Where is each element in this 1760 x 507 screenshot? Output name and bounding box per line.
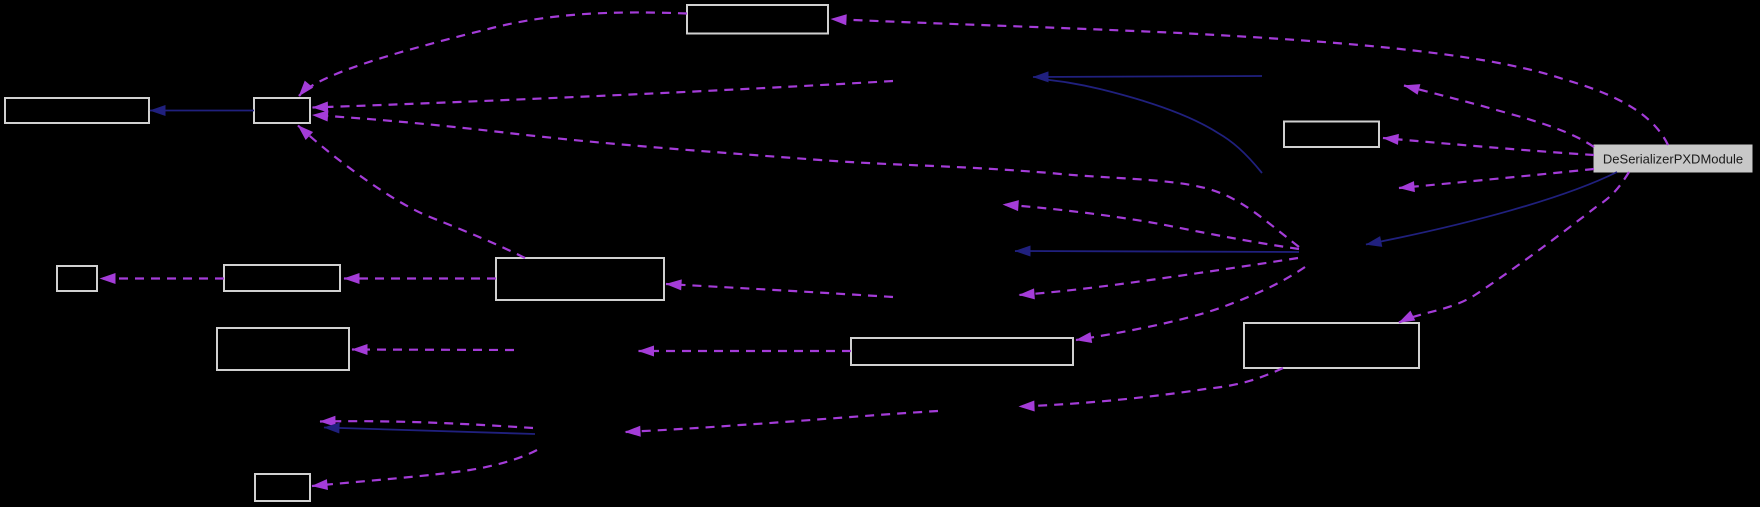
edge E4: B8 top -> B2 bottom — [298, 126, 525, 259]
node B8 — [496, 258, 664, 300]
blue edge BL2: horizontal — [1033, 76, 1262, 77]
node B6 — [57, 266, 97, 291]
node B9 — [217, 328, 349, 370]
blue edge BL3: curve — [1042, 79, 1262, 173]
blue edge BL4: label -> fan — [1366, 172, 1617, 245]
edge L2: fan -> invisible — [1003, 205, 1299, 250]
node B1 — [5, 98, 149, 123]
edge pair purple: invisible -> invisible — [320, 421, 533, 428]
node B4 — [1284, 122, 1379, 148]
node B7 — [224, 265, 340, 291]
edge B10 -> invisible left — [639, 350, 852, 352]
node B12 — [255, 474, 310, 501]
edge Earc1: label top -> B3 right — [831, 19, 1668, 145]
edge Ea: label -> invisible upper — [1404, 86, 1594, 148]
node B10 — [851, 338, 1073, 365]
main node DeSerializerPXDModule — [1594, 145, 1752, 172]
node B3 — [687, 5, 828, 34]
edge Eb: label -> B4 right — [1383, 138, 1594, 155]
edge to B12 — [312, 450, 537, 486]
edge E5: label -> invisible — [1399, 169, 1594, 188]
svg-text:DeSerializerPXDModule: DeSerializerPXDModule — [1603, 152, 1743, 167]
edge B7 -> B6 — [100, 277, 224, 279]
edge L4: fan -> B10 right — [1076, 267, 1305, 340]
node B2 — [254, 98, 310, 123]
edge EL6: invisible -> invisible — [625, 411, 938, 432]
edge E2: invisible -> B2 right upper — [313, 81, 894, 108]
node B11 — [1244, 323, 1419, 368]
blue edge BL6: fan -> invisible — [1015, 251, 1299, 252]
edge L3: fan -> invisible — [1019, 258, 1298, 295]
edge E3: fan -> B2 right lower — [313, 115, 1300, 247]
blue edge BL5: lower pair — [324, 428, 535, 435]
edge B8 -> B7 — [344, 277, 496, 279]
edge E1: B3 -> B2 top — [299, 12, 687, 96]
edge Ec: label -> B11 top — [1399, 172, 1629, 323]
edge invisible -> B8 right — [666, 284, 893, 297]
edge invisible -> B9 — [352, 348, 514, 351]
edge B11 bottom -> invisible — [1019, 368, 1283, 407]
blue edge BL1: B2 -> B1 — [150, 110, 254, 112]
